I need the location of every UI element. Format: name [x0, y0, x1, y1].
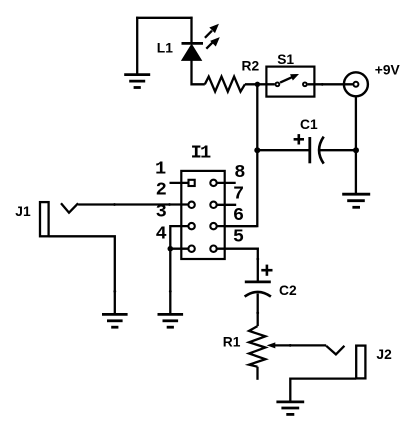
joint tick tip wire b — [168, 203, 171, 206]
switch S1 box — [266, 67, 314, 97]
wire J1 tip to pin 2 — [78, 203, 188, 205]
svg-text:+9V: +9V — [375, 63, 401, 78]
svg-text:R2: R2 — [242, 59, 260, 74]
wire left riser to ground — [136, 17, 138, 74]
IC pin 3 pad — [188, 223, 194, 229]
svg-text:I1: I1 — [191, 141, 211, 163]
junction C1 left — [254, 147, 260, 153]
IC I1 body — [181, 171, 224, 259]
label I1 — [191, 141, 211, 163]
label J1 — [15, 204, 31, 219]
label L1 — [157, 40, 173, 55]
label J2 — [376, 347, 392, 362]
svg-text:8: 8 — [234, 161, 245, 183]
joint tick riser — [169, 290, 172, 293]
jack J2 tip contact — [326, 346, 344, 355]
svg-text:C1: C1 — [300, 117, 318, 132]
wire R2 to S1 — [245, 83, 275, 85]
wire junction down to C1 — [256, 84, 258, 150]
jack J1 body — [40, 202, 49, 236]
potentiometer R1 — [249, 326, 265, 367]
C2 polarity plus — [261, 265, 272, 276]
switch S1 contacts — [276, 82, 307, 86]
svg-text:J1: J1 — [15, 204, 31, 219]
label C2 — [279, 283, 297, 298]
svg-text:4: 4 — [156, 222, 167, 244]
pin number 2 — [156, 178, 167, 200]
switch S1 lever with arrow — [280, 74, 298, 82]
svg-text:6: 6 — [233, 204, 244, 226]
wire LED cathode lead — [190, 17, 192, 44]
jack J1 tip contact — [61, 203, 78, 212]
wire J1 sleeve to ground — [49, 236, 115, 313]
pin number 3 — [156, 200, 167, 222]
wire C1 junction down to pin 6 — [225, 150, 257, 226]
IC pin 2 pad — [188, 202, 194, 208]
ground (under +9V) — [342, 194, 370, 207]
joint tick tip wire a — [113, 203, 116, 206]
wire C1 right — [320, 149, 356, 151]
IC pin 7 pad — [210, 202, 216, 208]
pin number 6 — [233, 204, 244, 226]
joint tick pin5 wire — [256, 258, 259, 261]
svg-text:5: 5 — [233, 226, 244, 248]
ground (J1 sleeve) — [102, 314, 128, 327]
wire S1 to +9V connector — [308, 83, 353, 85]
label C1 — [300, 117, 318, 132]
label S1 — [277, 52, 294, 67]
joint tick wiper wire — [289, 344, 292, 347]
wire C1 left — [257, 149, 309, 151]
R1 wiper arrow — [267, 342, 327, 348]
joint tick sleeve riser — [113, 290, 116, 293]
ground (J2 sleeve) — [276, 402, 304, 415]
label R2 — [242, 59, 260, 74]
wire LED anode lead — [192, 59, 205, 84]
pin number 5 — [233, 226, 244, 248]
junction C1 right — [353, 147, 359, 153]
wire pin 5 to C2 — [217, 249, 258, 281]
wire +9V connector to ground — [355, 97, 357, 193]
wire pin 8 stub — [217, 182, 236, 184]
wire top horizontal from ground riser to LED cathode — [136, 17, 193, 19]
IC pin 4 pad — [188, 246, 194, 252]
svg-text:L1: L1 — [157, 40, 173, 55]
wire C2 to R1 — [257, 294, 259, 327]
LED emission arrow 2 — [206, 38, 219, 49]
jack J2 body — [356, 346, 365, 379]
joint tick on S1 wire — [321, 83, 324, 86]
svg-text:R1: R1 — [223, 335, 241, 350]
wire pin 7 stub — [217, 204, 237, 206]
pin number 7 — [233, 183, 244, 205]
IC pin 5 pad — [210, 246, 216, 252]
svg-text:S1: S1 — [277, 52, 294, 67]
svg-text:2: 2 — [156, 178, 167, 200]
wire R1 bottom lead — [256, 367, 258, 380]
pin number 8 — [234, 161, 245, 183]
joint tick C2 wire — [256, 312, 259, 315]
junction pin3/4 riser — [168, 246, 174, 252]
svg-text:1: 1 — [155, 158, 166, 180]
junction node R2/S1/C1 branch — [255, 82, 260, 87]
wire pin 6 to C1 riser — [217, 225, 258, 227]
ground (pins 3-4) — [158, 314, 184, 327]
wire J2 sleeve to ground — [290, 379, 356, 401]
C1 polarity plus — [294, 134, 304, 144]
pin number 1 — [155, 158, 166, 180]
pin number 4 — [156, 222, 167, 244]
IC pin 8 pad — [210, 180, 216, 186]
label +9V — [375, 63, 401, 78]
resistor R2 — [205, 77, 245, 92]
LED L1 — [182, 43, 204, 60]
svg-text:J2: J2 — [376, 347, 392, 362]
wire pin 4 stub — [170, 248, 188, 250]
+9V connector — [344, 72, 368, 96]
IC pin 1 pad (square) — [189, 180, 195, 186]
IC pin 6 pad — [210, 223, 216, 229]
label R1 — [223, 335, 241, 350]
wire pin 3 stub and riser to ground — [170, 226, 188, 313]
wire pin 1 stub — [170, 182, 189, 184]
capacitor C2 — [245, 282, 271, 297]
svg-text:7: 7 — [233, 183, 244, 205]
ground (top-left) — [124, 75, 150, 88]
LED emission arrow 1 — [205, 24, 219, 38]
capacitor C1 — [310, 137, 324, 164]
svg-text:C2: C2 — [279, 283, 297, 298]
